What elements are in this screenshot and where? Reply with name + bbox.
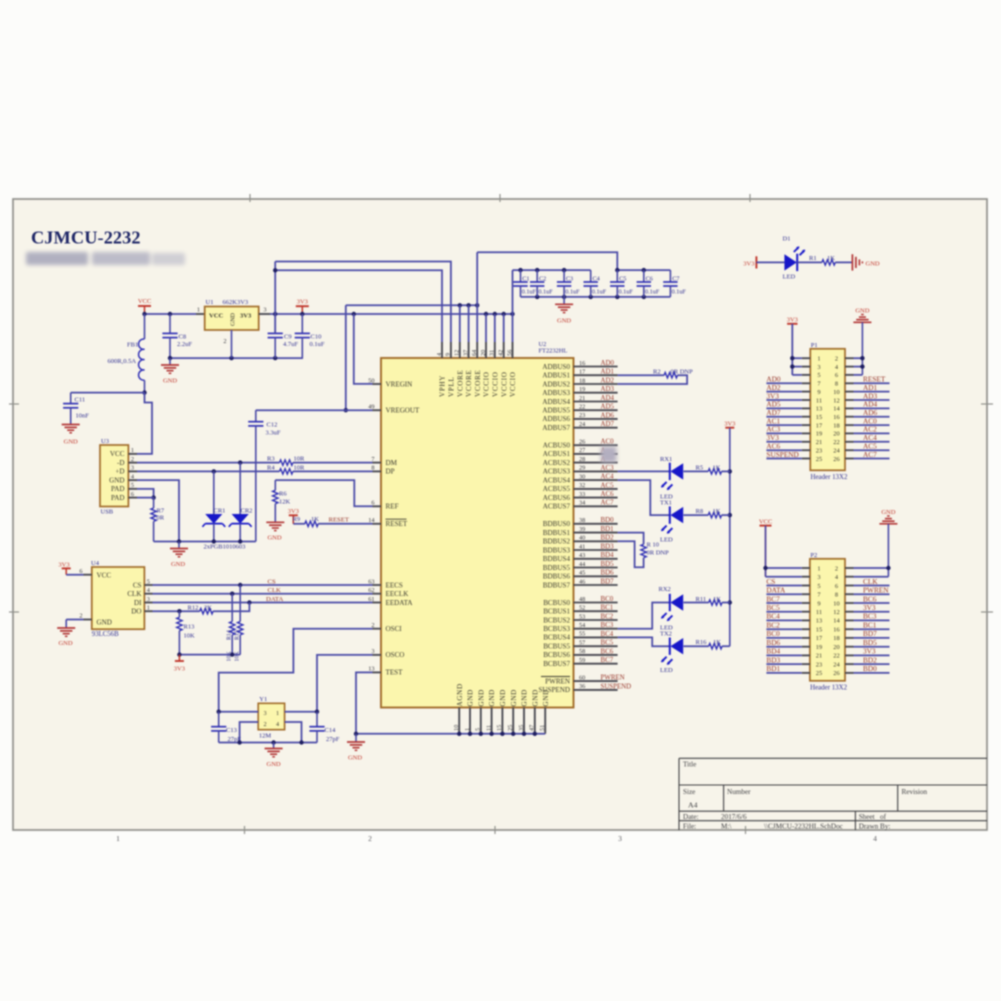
svg-text:U3: U3 (101, 438, 109, 445)
svg-text:36: 36 (579, 683, 585, 690)
svg-text:BC3: BC3 (863, 612, 877, 621)
LED TX1 (618, 480, 709, 543)
svg-text:ADBUS6: ADBUS6 (542, 415, 570, 423)
wire VREGOUT to C12 (256, 409, 373, 411)
svg-text:C13: C13 (226, 727, 237, 734)
svg-text:2: 2 (835, 356, 838, 363)
wire VCC rail to U1 pin 1 (145, 307, 205, 315)
svg-text:AD1: AD1 (601, 369, 615, 376)
svg-text:BC5: BC5 (766, 603, 780, 612)
svg-text:CR2: CR2 (241, 508, 253, 515)
svg-text:Size: Size (683, 788, 695, 796)
capacitor C13 27pF (211, 712, 241, 743)
ground rail under U1 (168, 356, 303, 360)
svg-text:CS: CS (766, 577, 775, 586)
svg-text:23: 23 (816, 448, 822, 455)
svg-text:3: 3 (147, 596, 150, 603)
svg-text:3V3: 3V3 (863, 603, 876, 612)
svg-text:59: 59 (579, 657, 585, 664)
svg-text:FB1: FB1 (127, 342, 138, 349)
svg-text:41: 41 (579, 543, 585, 550)
svg-text:RESET: RESET (329, 516, 349, 523)
svg-text:AC3: AC3 (601, 465, 615, 472)
svg-text:Date:: Date: (683, 813, 699, 821)
svg-text:16: 16 (833, 414, 839, 421)
svg-text:BDBUS2: BDBUS2 (543, 538, 571, 546)
svg-text:2017/6/6: 2017/6/6 (721, 813, 747, 821)
wire Y1 pin2 to ground rail (240, 722, 259, 743)
svg-text:BDBUS1: BDBUS1 (543, 529, 571, 537)
svg-text:CLK: CLK (268, 587, 282, 594)
svg-text:12: 12 (833, 397, 839, 404)
svg-text:GND: GND (267, 535, 281, 542)
wire VPLL net (top line) (275, 262, 451, 343)
wire R1 to GND (835, 261, 852, 263)
svg-text:6: 6 (835, 583, 838, 590)
crystal ground rail (219, 740, 317, 744)
svg-text:Title: Title (683, 761, 696, 769)
svg-text:37: 37 (462, 350, 469, 356)
svg-text:Header 13X2: Header 13X2 (810, 684, 847, 691)
wire OSCO to crystal (317, 655, 373, 712)
ground symbol GND (cap bank) (555, 297, 573, 325)
svg-text:Y1: Y1 (259, 696, 267, 703)
svg-text:662K3V3: 662K3V3 (223, 299, 249, 306)
power flag 3V3 (D1) (743, 256, 756, 268)
svg-text:VCC: VCC (110, 450, 125, 458)
svg-text:R12: R12 (188, 604, 199, 611)
svg-text:RX1: RX1 (660, 456, 672, 463)
svg-text:C3: C3 (566, 276, 573, 283)
svg-text:-D: -D (117, 459, 125, 467)
power flag 3V3 (pullups, pointing down) (174, 655, 185, 673)
svg-text:24: 24 (833, 448, 840, 455)
resistor R11 1K (696, 596, 730, 605)
svg-text:3V3: 3V3 (743, 260, 754, 267)
svg-text:LED: LED (660, 667, 673, 674)
svg-text:BC4: BC4 (601, 631, 614, 638)
svg-text:VCCIO: VCCIO (509, 371, 517, 397)
capacitor C11 10nF (63, 393, 144, 424)
svg-text:BC1: BC1 (863, 621, 877, 630)
svg-text:ACBUS2: ACBUS2 (543, 459, 571, 467)
wire -D to DM (with R3) (137, 462, 373, 464)
svg-text:BCBUS4: BCBUS4 (543, 634, 570, 642)
junction nodes on 3V3 rail (273, 312, 515, 316)
svg-text:4: 4 (276, 721, 279, 728)
svg-text:OSCO: OSCO (386, 651, 405, 659)
svg-text:PAD: PAD (111, 494, 125, 502)
svg-text:VREGIN: VREGIN (386, 380, 413, 388)
U2 right net labels (601, 360, 632, 690)
label 2xPGB1010603 (204, 544, 246, 551)
capacitor C12 3.3uF (248, 410, 281, 541)
svg-text:20: 20 (833, 644, 839, 651)
svg-text:15: 15 (816, 414, 822, 421)
svg-text:C7: C7 (672, 276, 679, 283)
U2 right pins, numbers and names (538, 360, 617, 694)
svg-text:3: 3 (263, 307, 266, 314)
svg-text:9: 9 (817, 600, 820, 607)
svg-text:AD4: AD4 (601, 395, 615, 402)
svg-text:15: 15 (496, 725, 503, 731)
svg-text:48: 48 (579, 596, 585, 603)
junction node VCC/C8 (142, 312, 172, 316)
svg-text:GND: GND (510, 689, 518, 706)
svg-text:GND: GND (557, 318, 571, 325)
svg-text:43: 43 (579, 552, 585, 559)
ground symbol GND (USB) (170, 542, 188, 569)
svg-text:GND: GND (58, 640, 72, 647)
svg-text:12: 12 (454, 350, 461, 356)
svg-text:ADBUS0: ADBUS0 (542, 363, 570, 371)
svg-text:22: 22 (833, 653, 839, 660)
resistor R5 1K (696, 465, 730, 474)
svg-text:5: 5 (817, 372, 820, 379)
svg-text:2: 2 (79, 613, 82, 620)
svg-text:AC7: AC7 (863, 450, 877, 459)
svg-text:BD4: BD4 (766, 647, 780, 656)
pullup common rail (177, 652, 240, 656)
svg-text:C8: C8 (179, 333, 187, 340)
svg-text:BD7: BD7 (863, 629, 877, 638)
svg-text:CJMCU-2232: CJMCU-2232 (31, 228, 141, 248)
svg-text:18: 18 (833, 635, 839, 642)
svg-text:TEST: TEST (386, 669, 404, 677)
svg-text:ADBUS2: ADBUS2 (542, 380, 570, 388)
svg-text:R4: R4 (267, 465, 275, 472)
svg-text:53: 53 (579, 613, 585, 620)
wire CS to EECS (153, 583, 373, 587)
svg-text:54: 54 (579, 622, 586, 629)
cap bank top rail (3V3 side) (513, 268, 591, 272)
ground symbol GND (C11) (62, 425, 80, 446)
svg-text:40: 40 (579, 535, 585, 542)
svg-text:AD7: AD7 (601, 421, 615, 428)
svg-text:LED: LED (660, 537, 673, 544)
resistor R9 1K (293, 516, 373, 527)
TVS diode CR1 (202, 471, 225, 541)
svg-text:600R,0.5A: 600R,0.5A (108, 358, 137, 365)
svg-text:25: 25 (816, 670, 822, 677)
capacitor C2 0.1uF (530, 270, 553, 297)
wire Y1 pin3 rail (217, 710, 259, 714)
svg-text:BD5: BD5 (601, 561, 615, 568)
wire VREGOUT riser (344, 305, 348, 412)
ground symbol GND (C8) (161, 358, 179, 384)
svg-text:ADBUS4: ADBUS4 (542, 398, 570, 406)
svg-text:BDBUS3: BDBUS3 (543, 546, 571, 554)
svg-text:ACBUS7: ACBUS7 (543, 503, 571, 511)
cap bank top rail (VCORE side) (615, 268, 670, 272)
svg-text:Sheet of: Sheet of (859, 813, 887, 821)
svg-text:VPLL: VPLL (448, 376, 456, 397)
svg-text:23: 23 (579, 412, 585, 419)
svg-text:3: 3 (817, 364, 820, 371)
net label CS (268, 578, 276, 585)
svg-text:64: 64 (471, 349, 478, 356)
wire USB PAD pin 5 (137, 489, 154, 498)
ground symbol GND (crystal) (265, 743, 283, 769)
wire VCCIO risers (486, 270, 513, 342)
svg-text:U1: U1 (206, 299, 214, 306)
svg-text:1: 1 (817, 356, 820, 363)
svg-text:5: 5 (475, 728, 482, 731)
svg-text:22: 22 (579, 404, 585, 411)
svg-text:GND: GND (97, 619, 112, 627)
power flag 3V3 (P1) (787, 317, 798, 375)
svg-text:8: 8 (371, 465, 374, 472)
svg-text:C4: C4 (593, 276, 600, 283)
wire BD1 extension to R10 (618, 533, 644, 545)
svg-text:10K: 10K (234, 651, 240, 662)
wire VCORE to cap bank C5-C7 (477, 252, 617, 342)
svg-text:46: 46 (579, 578, 585, 585)
svg-text:VCORE: VCORE (456, 369, 464, 397)
ground symbol GND (R6) (266, 522, 284, 541)
svg-text:GND: GND (109, 476, 124, 484)
junction nodes on USB data lines (212, 460, 243, 473)
svg-text:DATA: DATA (266, 596, 283, 603)
svg-text:3: 3 (131, 465, 134, 472)
svg-text:ACBUS4: ACBUS4 (543, 476, 571, 484)
resistor R16 1K (696, 639, 730, 649)
svg-text:CLK: CLK (863, 577, 878, 586)
svg-text:VCORE: VCORE (474, 369, 482, 397)
wire R2 to AD2 line (618, 375, 688, 384)
svg-text:3: 3 (817, 574, 820, 581)
svg-text:11: 11 (816, 397, 822, 404)
power flag 3V3 (RESET pullup) (288, 508, 299, 524)
capacitor C7 0.1uF (663, 270, 686, 297)
svg-text:C12: C12 (267, 422, 278, 429)
svg-text:\\CJMCU-2232HL.SchDoc: \\CJMCU-2232HL.SchDoc (764, 823, 843, 831)
svg-text:3V3: 3V3 (724, 421, 735, 428)
svg-text:SUSPEND: SUSPEND (601, 683, 632, 690)
svg-text:30: 30 (579, 473, 585, 480)
wire CLK to EECLK (153, 592, 373, 596)
svg-text:5: 5 (147, 578, 150, 585)
ground symbol GND (P1) (853, 307, 871, 375)
svg-text:19: 19 (816, 644, 822, 651)
svg-text:VCCIO: VCCIO (491, 371, 499, 397)
U2 bottom ground rail (356, 732, 545, 736)
svg-text:AD6: AD6 (601, 412, 615, 419)
wire +D to DP (with R4) (137, 470, 373, 472)
svg-text:21: 21 (579, 395, 585, 402)
svg-text:21: 21 (816, 653, 822, 660)
resistor R14 10K (227, 594, 235, 662)
svg-text:33: 33 (579, 491, 585, 498)
blurred watermark (26, 252, 185, 265)
vertical 3V3 feed to C9 column (273, 262, 277, 334)
svg-text:GND: GND (866, 260, 880, 267)
svg-text:AC7: AC7 (601, 500, 615, 507)
svg-text:47: 47 (529, 725, 536, 731)
wires P1 pins 2,4,6 to GND (854, 356, 865, 375)
svg-text:10nF: 10nF (76, 413, 90, 420)
svg-text:19: 19 (579, 386, 585, 393)
svg-text:GND: GND (499, 689, 507, 706)
svg-text:ACBUS3: ACBUS3 (543, 468, 571, 476)
svg-text:1: 1 (147, 605, 150, 612)
LED RX1 (618, 456, 709, 506)
wire OSCI to crystal (219, 629, 373, 712)
svg-text:C6: C6 (646, 276, 653, 283)
svg-text:VCCIO: VCCIO (500, 371, 508, 397)
svg-text:38: 38 (579, 517, 585, 524)
wire TEST pin to ground (354, 672, 373, 736)
svg-text:R7: R7 (157, 508, 165, 515)
pin 3 of U1 / 3V3 rail (259, 307, 513, 315)
blur patch over AC1 AC2 labels (601, 447, 617, 463)
svg-text:C5: C5 (619, 276, 626, 283)
svg-text:10K: 10K (184, 633, 196, 640)
svg-text:2: 2 (223, 338, 226, 345)
svg-text:5: 5 (131, 482, 134, 489)
power flag VCC (138, 298, 151, 314)
svg-text:1K: 1K (713, 508, 721, 515)
svg-text:Drawn By:: Drawn By: (859, 823, 891, 831)
svg-text:3V3: 3V3 (297, 299, 308, 306)
svg-text:GND: GND (521, 689, 529, 706)
svg-text:ADBUS1: ADBUS1 (542, 372, 570, 380)
svg-text:16: 16 (833, 627, 839, 634)
svg-text:DM: DM (386, 459, 398, 467)
wires P2 pins 1,3 to VCC (763, 526, 802, 577)
svg-text:TX1: TX1 (660, 499, 672, 506)
svg-text:BC6: BC6 (863, 594, 877, 603)
svg-text:R11: R11 (696, 596, 707, 603)
EEPROM U4 93LC56B (79, 560, 152, 638)
svg-text:25: 25 (816, 456, 822, 463)
capacitor C9 4.7uF (268, 314, 299, 358)
svg-text:R9: R9 (293, 516, 301, 523)
svg-text:R13: R13 (184, 624, 195, 631)
svg-text:R2: R2 (653, 369, 661, 376)
capacitor C6 0.1uF (637, 270, 660, 297)
svg-text:GND: GND (467, 689, 475, 706)
svg-text:GND: GND (881, 509, 895, 516)
svg-text:31: 31 (489, 350, 496, 356)
pin 2 of U1 to ground rail (223, 330, 231, 358)
svg-text:1: 1 (116, 834, 120, 843)
junction node FB1/C11 (142, 390, 146, 394)
svg-text:0R DNP: 0R DNP (647, 550, 670, 557)
svg-text:7: 7 (371, 456, 374, 463)
ground symbol GND (TEST) (347, 734, 365, 762)
svg-text:BD0: BD0 (863, 664, 877, 673)
svg-text:10: 10 (833, 389, 839, 396)
wire VCORE rail (346, 303, 480, 342)
svg-text:0.1uF: 0.1uF (645, 289, 660, 296)
svg-text:9: 9 (445, 353, 452, 356)
svg-text:18: 18 (579, 377, 585, 384)
svg-text:ACBUS1: ACBUS1 (543, 450, 571, 458)
wire R10 to BD2 line (618, 541, 644, 567)
svg-text:AGND: AGND (456, 683, 464, 706)
svg-text:60: 60 (579, 674, 585, 681)
svg-text:ADBUS7: ADBUS7 (542, 424, 570, 432)
svg-text:12M: 12M (259, 732, 272, 739)
crystal Y1 12M (258, 696, 284, 739)
svg-text:42: 42 (498, 350, 505, 356)
title CJMCU-2232 (31, 228, 141, 248)
svg-text:R3: R3 (267, 456, 275, 463)
svg-text:2: 2 (368, 834, 372, 843)
svg-text:17: 17 (816, 635, 823, 642)
title block (679, 758, 987, 830)
svg-text:AD3: AD3 (601, 386, 615, 393)
P1 left net wires and labels (766, 375, 801, 459)
svg-text:GND: GND (64, 439, 78, 446)
svg-text:R 10: R 10 (647, 542, 659, 549)
svg-text:AD5: AD5 (601, 404, 615, 411)
svg-text:2: 2 (835, 565, 838, 572)
power flag 3V3 (U4) (58, 561, 83, 574)
svg-text:BD0: BD0 (601, 517, 615, 524)
svg-text:14: 14 (833, 406, 840, 413)
svg-text:BD1: BD1 (601, 526, 615, 533)
svg-text:R6: R6 (279, 490, 287, 497)
border zone ticks and numbers (9, 194, 993, 843)
svg-text:BCBUS1: BCBUS1 (543, 608, 570, 616)
svg-text:1K: 1K (827, 255, 835, 262)
svg-text:LED: LED (783, 274, 796, 281)
svg-text:U4: U4 (91, 560, 100, 567)
svg-text:6: 6 (835, 372, 838, 379)
USB ground rail (154, 539, 256, 543)
svg-text:19: 19 (816, 431, 822, 438)
capacitor C1 0.1uF (513, 270, 536, 297)
junction node PAD5/PAD6 (151, 495, 155, 499)
svg-text:BC3: BC3 (601, 622, 614, 629)
svg-text:2: 2 (131, 456, 134, 463)
svg-text:50: 50 (368, 377, 374, 384)
svg-text:10: 10 (453, 725, 460, 731)
svg-text:EECS: EECS (386, 581, 403, 589)
svg-text:VCC: VCC (759, 519, 772, 526)
ferrite bead FB1 600R 0.5A (108, 314, 145, 393)
svg-text:GND: GND (163, 378, 177, 385)
svg-text:0.1uF: 0.1uF (619, 289, 634, 296)
svg-text:C11: C11 (75, 397, 86, 404)
svg-text:SUSPEND: SUSPEND (766, 450, 798, 459)
svg-text:3.3uF: 3.3uF (266, 429, 281, 436)
svg-text:CS: CS (268, 578, 276, 585)
svg-text:12K: 12K (279, 498, 291, 505)
svg-text:VCC: VCC (97, 572, 112, 580)
cap bank bottom ground rail (521, 295, 671, 299)
svg-text:R8: R8 (696, 508, 704, 515)
svg-text:CR1: CR1 (214, 508, 226, 515)
svg-text:VCC: VCC (138, 298, 151, 305)
IC U2 FT2232HL (381, 341, 574, 708)
svg-text:55: 55 (579, 631, 585, 638)
svg-text:C14: C14 (325, 727, 337, 734)
svg-text:ACBUS6: ACBUS6 (543, 494, 571, 502)
svg-text:ADBUS5: ADBUS5 (542, 407, 570, 415)
svg-text:0R: 0R (157, 515, 165, 522)
svg-text:3V3: 3V3 (174, 666, 185, 673)
svg-text:49: 49 (368, 404, 374, 411)
wire VPHY net (second line) (275, 270, 442, 342)
LED D1 (783, 236, 806, 281)
svg-text:M:\: M:\ (721, 823, 731, 831)
svg-text:8: 8 (835, 592, 838, 599)
svg-text:BD7: BD7 (601, 578, 615, 585)
svg-text:1K: 1K (713, 465, 721, 472)
